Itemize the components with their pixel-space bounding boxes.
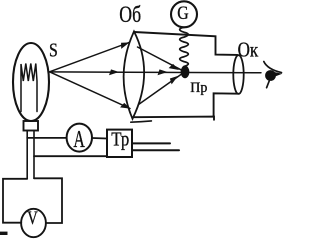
lamp base (24, 121, 39, 131)
ray lens top to receiver (138, 47, 183, 70)
receiver Пр dot (181, 66, 190, 79)
scan artifact bottom-left (0, 232, 8, 235)
arrowhead axial before lens (109, 69, 119, 75)
ray lens bottom to receiver (139, 74, 182, 104)
svg-text:А: А (73, 127, 85, 153)
spring from G to receiver (180, 27, 189, 66)
ray upper S to lens (50, 43, 130, 72)
wire lamp to Tr lower (34, 155, 107, 157)
eye lash (267, 81, 270, 88)
eye outer corner (273, 72, 282, 77)
ammeter A (67, 124, 92, 152)
wire A to Tr (92, 137, 107, 140)
lamp lead left (26, 131, 28, 179)
housing bottom wall (135, 93, 239, 120)
arrowhead lens-top ray (169, 63, 181, 73)
arrowhead lower ray (120, 102, 132, 111)
lens flange lower stroke (131, 121, 152, 122)
ray axial S to eye (50, 71, 262, 74)
eye pupil (265, 70, 276, 81)
svg-text:Пр: Пр (190, 80, 207, 96)
arrowhead upper ray (119, 40, 130, 49)
arrowhead lens-bottom ray (168, 74, 180, 85)
svg-text:Об: Об (119, 2, 141, 27)
lamp filament (21, 64, 37, 112)
lens Об (124, 31, 145, 118)
voltmeter branch right (34, 178, 62, 223)
transformer Тр box (107, 130, 132, 157)
lamp lead right (33, 131, 35, 179)
lamp S envelope (13, 43, 49, 121)
svg-text:Ок: Ок (238, 37, 259, 61)
eyepiece Ок (233, 55, 243, 94)
galvanometer G (171, 1, 197, 27)
arrowhead axial before receiver (158, 69, 168, 75)
voltmeter branch left (3, 179, 27, 223)
svg-text:G: G (177, 3, 189, 24)
mains lead lower (133, 149, 180, 151)
housing top wall (134, 32, 237, 55)
svg-text:Тр: Тр (111, 129, 129, 151)
svg-text:V: V (27, 209, 38, 229)
ray lower S to lens (50, 72, 131, 109)
svg-text:S: S (49, 41, 58, 62)
voltmeter V (21, 209, 46, 237)
mains lead upper (133, 142, 171, 144)
wire lamp base to ammeter (27, 137, 66, 139)
eye eyelid arc (264, 62, 282, 73)
